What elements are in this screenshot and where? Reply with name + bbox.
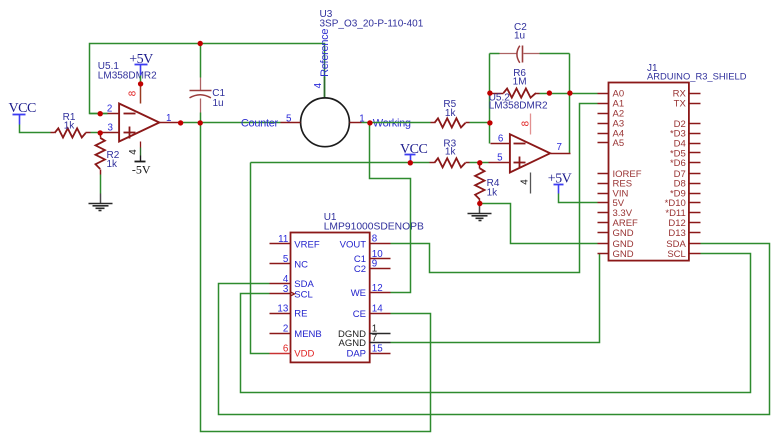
- svg-text:9: 9: [372, 259, 377, 270]
- J1 right pin D12: [668, 218, 700, 229]
- J1 left pin A0: [598, 89, 625, 100]
- junction node at +5V / U5.1 pin 8: [138, 81, 143, 86]
- svg-text:1k: 1k: [445, 108, 457, 119]
- junction node at VCC flag on R3 wire: [408, 160, 413, 165]
- J1 left pin RES: [598, 179, 633, 190]
- op-amp U5.2 LM358DMR2: [489, 93, 550, 173]
- junction node at R3/R4/U5.2 pin 5: [477, 160, 482, 165]
- J1 left pin 3.3V: [598, 208, 633, 219]
- pin 15 DAP U1: [346, 343, 390, 359]
- svg-text:1u: 1u: [213, 98, 224, 109]
- pin 8 power pin U5.2: [520, 114, 531, 135]
- pin 4 power pin U5.1: [128, 142, 141, 156]
- svg-text:D13: D13: [668, 228, 685, 239]
- svg-text:Working: Working: [373, 118, 411, 130]
- svg-text:GND: GND: [613, 249, 634, 260]
- wire WE net to working node: [370, 123, 411, 293]
- pin 5 stub U3: [281, 113, 301, 124]
- J1 right pin SCL: [667, 249, 700, 260]
- J1 left pin A2: [598, 109, 625, 120]
- svg-text:1k: 1k: [64, 120, 76, 131]
- pin 13 RE U1: [270, 303, 308, 319]
- J1 right pin D3: [670, 129, 701, 140]
- svg-text:4: 4: [520, 179, 531, 185]
- pin 4 power pin U5.2: [520, 173, 531, 194]
- svg-text:LMP91000SDENOPB: LMP91000SDENOPB: [324, 221, 424, 232]
- J1 left pin A5: [598, 138, 625, 149]
- resistor R3 1k: [430, 138, 489, 167]
- resistor R5 1k: [431, 99, 490, 128]
- svg-text:MENB: MENB: [294, 329, 321, 340]
- svg-text:-5V: -5V: [132, 163, 151, 177]
- svg-text:1M: 1M: [513, 76, 527, 87]
- svg-text:Counter: Counter: [241, 118, 279, 130]
- svg-text:WE: WE: [351, 288, 366, 299]
- J1 right pin D10: [665, 198, 701, 209]
- J1 right pin D5: [670, 148, 701, 159]
- power flag VCC (left): [9, 101, 36, 124]
- svg-text:AREF: AREF: [613, 218, 639, 229]
- connector J1 ARDUINO_R3_SHIELD body: [609, 63, 747, 260]
- wire AGND net to Arduino GND: [391, 254, 600, 343]
- svg-text:2: 2: [283, 324, 288, 335]
- J1 right pin D4: [674, 139, 701, 150]
- J1 left pin A4: [598, 128, 625, 139]
- wire R6 output to Arduino A0: [540, 93, 598, 95]
- net label Working: [373, 118, 411, 130]
- svg-text:TX: TX: [674, 99, 687, 110]
- pin 14 CE U1: [353, 304, 391, 320]
- pin 5 stub U5.2: [489, 153, 510, 164]
- svg-text:4: 4: [313, 82, 324, 88]
- pin 8 VOUT U1: [340, 234, 391, 251]
- ground symbol below R4: [468, 204, 492, 221]
- svg-text:CE: CE: [353, 309, 366, 320]
- wire SCL net U1 to J1: [241, 254, 751, 393]
- svg-text:8: 8: [520, 120, 531, 126]
- svg-text:1u: 1u: [514, 30, 525, 41]
- pin 1 DGND U1: [338, 324, 390, 340]
- svg-text:1k: 1k: [107, 159, 119, 170]
- power flag -5V below U5.1: [132, 156, 151, 177]
- svg-text:SCL: SCL: [294, 289, 312, 300]
- svg-text:NC: NC: [294, 259, 308, 270]
- net label Reference (rotated): [319, 29, 331, 77]
- J1 right pin SDA: [666, 239, 700, 250]
- svg-text:1k: 1k: [445, 147, 457, 158]
- junction node at U5.1 output: [178, 120, 183, 125]
- junction node at R4 bottom / GND wire: [477, 201, 482, 206]
- power flag +5V above U5.1: [129, 52, 153, 84]
- pin 3 label U5.1: [107, 122, 113, 133]
- svg-text:3: 3: [283, 284, 289, 295]
- wire VCC row to R3: [251, 162, 430, 164]
- svg-text:13: 13: [277, 303, 288, 314]
- junction node at R6 right: [547, 90, 552, 95]
- svg-text:GND: GND: [613, 228, 634, 239]
- capacitor C1 1u: [190, 44, 226, 123]
- wire VOUT net to Arduino A1: [391, 104, 598, 273]
- pin 12 WE U1: [351, 283, 391, 299]
- svg-text:3: 3: [107, 122, 113, 133]
- pin 9 C2 U1: [354, 259, 391, 275]
- svg-text:A5: A5: [613, 138, 625, 149]
- J1 left pin A3: [598, 119, 625, 130]
- power flag VCC (middle): [400, 142, 427, 163]
- wire op-amp output to sensor pin 5: [181, 122, 281, 124]
- sensor U3 3SP_O3_20-P-110-401: [301, 9, 424, 147]
- pin 7 AGND U1: [339, 333, 391, 349]
- J1 left pin IOREF: [598, 169, 642, 180]
- svg-text:6: 6: [498, 133, 504, 144]
- J1 left pin VIN: [598, 188, 629, 199]
- pin 5 NC U1: [270, 254, 309, 270]
- ground symbol below R2: [89, 194, 113, 211]
- svg-text:11: 11: [278, 234, 288, 245]
- op-amp U5.1 LM358DMR2: [98, 61, 160, 142]
- wire R4 bottom to Arduino GND: [480, 204, 598, 244]
- svg-text:8: 8: [128, 90, 139, 96]
- pin 6 VDD U1: [270, 343, 315, 359]
- svg-text:5: 5: [283, 254, 289, 265]
- pin 2 MENB U1: [270, 324, 322, 340]
- J1 right pin D9: [670, 188, 701, 199]
- J1 right pin TX: [674, 99, 701, 110]
- svg-text:1: 1: [166, 113, 171, 124]
- junction node at R1/R2/U5.1 pin 3: [98, 130, 103, 135]
- J1 left pin 5V: [598, 198, 625, 209]
- svg-text:1k: 1k: [487, 188, 499, 199]
- wire VCC to R1: [20, 125, 51, 133]
- pin 2 stub U5.1: [90, 103, 120, 114]
- pin 10 C1 U1: [354, 249, 391, 265]
- junction node at U5.1 pin 2: [98, 111, 103, 116]
- svg-text:4: 4: [128, 149, 139, 155]
- IC U1 LMP91000SDENOPB body: [291, 212, 424, 362]
- svg-text:*D6: *D6: [670, 158, 686, 169]
- svg-text:LM358DMR2: LM358DMR2: [98, 70, 157, 81]
- wire +5V to Arduino 5V pin: [559, 194, 598, 203]
- svg-text:3SP_O3_20-P-110-401: 3SP_O3_20-P-110-401: [320, 19, 424, 30]
- J1 right pin D2: [674, 119, 701, 130]
- svg-text:DAP: DAP: [346, 349, 366, 360]
- power flag +5V near J1: [548, 171, 572, 193]
- resistor R6 1M: [490, 68, 540, 98]
- svg-text:15: 15: [372, 343, 383, 354]
- pin 4 SDA U1: [270, 274, 315, 290]
- wire VDD net vertical from U1 up to VCC row: [251, 163, 270, 354]
- pin 11 VREF U1: [270, 234, 320, 250]
- pin 1 output stub U5.1: [160, 113, 181, 124]
- pin 3 SCL U1: [270, 284, 313, 300]
- junction node at C1 top / reference wire: [198, 41, 203, 46]
- svg-text:12: 12: [372, 283, 383, 294]
- J1 left pin GND3: [598, 249, 634, 260]
- wire working node to R5: [370, 122, 431, 124]
- svg-text:LM358DMR2: LM358DMR2: [489, 101, 548, 112]
- svg-text:8: 8: [372, 234, 378, 245]
- pin 6 stub U5.2: [491, 133, 510, 144]
- svg-text:VOUT: VOUT: [340, 239, 367, 250]
- svg-text:14: 14: [372, 304, 383, 315]
- junction node working at U3 pin 1: [367, 120, 372, 125]
- svg-text:C2: C2: [354, 264, 366, 275]
- junction node at R6 left / feedback: [487, 90, 492, 95]
- J1 right pin D6: [670, 158, 701, 169]
- svg-text:1: 1: [359, 114, 364, 125]
- svg-text:D12: D12: [668, 218, 685, 229]
- J1 right pin D7: [674, 169, 701, 180]
- svg-text:VREF: VREF: [294, 239, 320, 250]
- J1 left pin A1: [598, 99, 625, 110]
- J1 right pin D13: [668, 228, 700, 239]
- svg-text:SCL: SCL: [667, 249, 685, 260]
- wire SDA net U1 to J1: [219, 244, 770, 415]
- svg-text:5: 5: [286, 113, 292, 124]
- J1 left pin GND1: [598, 228, 634, 239]
- wire R2 to ground: [100, 175, 102, 194]
- svg-text:Reference: Reference: [319, 29, 331, 77]
- pin 1 stub U3: [350, 114, 370, 125]
- svg-text:6: 6: [283, 343, 289, 354]
- capacitor C2 1u: [490, 22, 570, 63]
- pin 7 stub U5.2: [551, 142, 571, 153]
- wire feedback right vertical down to pin 7: [569, 54, 571, 154]
- net label Counter: [241, 118, 279, 130]
- resistor R4 1k: [475, 163, 500, 204]
- junction node at R5 / U5.2 pin 6 feedback: [487, 120, 492, 125]
- J1 right pin RX: [673, 89, 701, 100]
- svg-text:VDD: VDD: [294, 349, 314, 360]
- resistor R2 1k: [96, 133, 120, 175]
- J1 left pin AREF: [598, 218, 639, 229]
- J1 left pin GND2: [598, 239, 634, 250]
- svg-text:ARDUINO_R3_SHIELD: ARDUINO_R3_SHIELD: [647, 71, 747, 82]
- pin 8 power pin U5.1: [128, 84, 141, 104]
- wire reference net top-left: [90, 44, 325, 114]
- junction node at C1 bottom / counter wire: [198, 120, 203, 125]
- wire counter net long vertical and bottom run to CE: [201, 123, 431, 432]
- junction node at A0 / U5.2 pin 7: [567, 90, 572, 95]
- svg-text:7: 7: [557, 142, 562, 153]
- J1 right pin D11: [665, 208, 700, 219]
- J1 right pin D8: [674, 179, 701, 190]
- svg-text:RE: RE: [294, 309, 307, 320]
- svg-text:5: 5: [497, 153, 503, 164]
- pin 4 label U3: [313, 82, 324, 88]
- resistor R1 1k: [51, 112, 120, 138]
- wire feedback left vertical: [489, 54, 491, 144]
- svg-text:2: 2: [107, 103, 112, 114]
